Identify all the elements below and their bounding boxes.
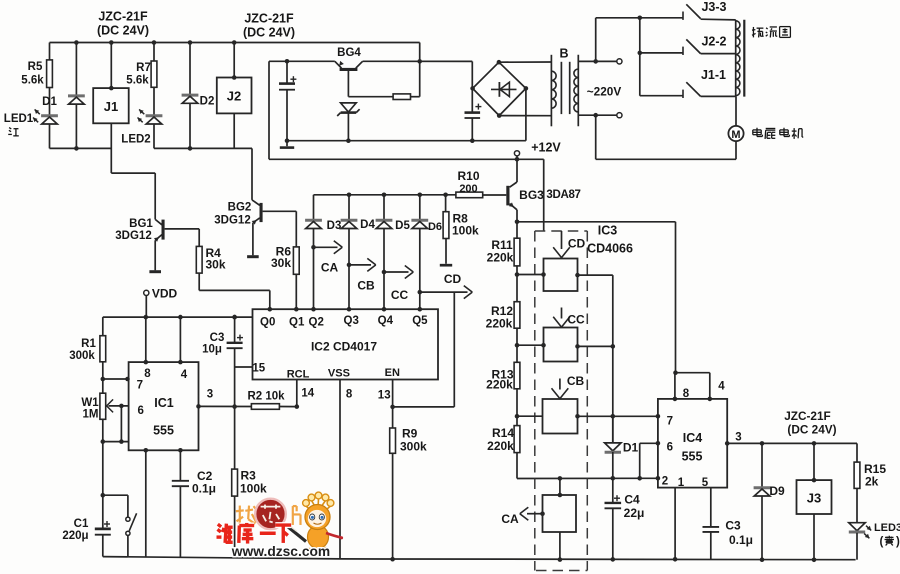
IC IC2 CD4017 <box>253 309 439 379</box>
label fan motor (dianshan dianji) <box>756 128 758 137</box>
motor M <box>735 96 737 126</box>
svg-text:CC: CC <box>567 313 585 327</box>
diode D1 timing <box>612 416 614 443</box>
svg-text:J3-3: J3-3 <box>701 0 726 14</box>
svg-text:3DA87: 3DA87 <box>546 189 580 201</box>
resistor BG4 bias <box>348 96 393 98</box>
wire pin3 output <box>727 442 857 444</box>
resistor R15 <box>856 443 858 462</box>
svg-text:CB: CB <box>357 279 375 293</box>
svg-text:220k: 220k <box>487 251 514 265</box>
svg-text:RCL: RCL <box>287 369 310 381</box>
svg-text:0.1μ: 0.1μ <box>729 533 753 547</box>
wire regulator output +12V <box>268 61 270 159</box>
svg-text:BG2: BG2 <box>228 202 252 214</box>
resistor R5 <box>49 43 51 60</box>
wire LED2 D2 J2 common to BG2 <box>154 147 252 149</box>
capacitor bridge output <box>465 111 481 114</box>
zener diode BG4 <box>341 103 357 112</box>
wire VDD bus <box>103 316 253 318</box>
svg-text:3DG12: 3DG12 <box>214 215 250 227</box>
svg-text:100k: 100k <box>452 224 479 238</box>
wire bridge left leg <box>471 61 473 112</box>
resistor R9 <box>392 407 394 428</box>
svg-text:BG1: BG1 <box>129 218 153 230</box>
svg-text:3: 3 <box>735 432 741 444</box>
svg-text:(DC 24V): (DC 24V) <box>243 26 295 40</box>
svg-text:EN: EN <box>385 367 400 379</box>
svg-text:R2 10k: R2 10k <box>247 391 285 403</box>
IC IC4 555 <box>658 399 727 488</box>
svg-text:www.dzsc.com: www.dzsc.com <box>231 544 330 559</box>
pin 8 stub <box>145 317 147 362</box>
svg-text:JZC-21F: JZC-21F <box>98 10 148 24</box>
svg-text:3DG12: 3DG12 <box>115 230 151 242</box>
svg-text:30k: 30k <box>271 256 291 270</box>
svg-text:R7: R7 <box>136 62 151 74</box>
svg-text:CA: CA <box>321 261 339 275</box>
terminal +12V <box>514 151 519 156</box>
wire diode rail <box>314 194 456 196</box>
svg-text:220k: 220k <box>486 378 513 392</box>
wire IC4 supply pins 8 4 <box>673 370 678 375</box>
svg-text:CA: CA <box>501 512 519 526</box>
wire BG4 collector to bridge <box>363 60 473 62</box>
svg-text:(: ( <box>880 536 884 548</box>
label red (hong) <box>9 128 11 129</box>
wire bridge bottom to transformer <box>499 115 551 117</box>
transistor BG4 <box>335 61 342 68</box>
svg-text:30k: 30k <box>206 258 226 272</box>
switch J2-2 <box>640 52 683 54</box>
relay coil J2 <box>232 40 237 45</box>
svg-text:C3: C3 <box>725 519 741 533</box>
pin 14 RCL <box>296 380 298 407</box>
wire CD switch right <box>578 274 613 276</box>
svg-text:LED2: LED2 <box>121 134 150 146</box>
ground BG1 emitter <box>149 270 161 273</box>
svg-text:R3: R3 <box>241 469 257 483</box>
svg-text:IC2 CD4017: IC2 CD4017 <box>311 340 377 354</box>
svg-text:BG4: BG4 <box>337 47 361 59</box>
svg-text:22μ: 22μ <box>624 506 645 520</box>
svg-text:D1: D1 <box>623 441 639 455</box>
analog switch CA <box>543 495 577 532</box>
diode D1 <box>74 40 79 45</box>
terminal 220V top <box>617 59 622 64</box>
resistor R14 <box>516 416 518 425</box>
svg-text:J2: J2 <box>227 89 241 104</box>
wire pin6 to pin2 loop <box>640 442 658 444</box>
wire secondary bottom <box>578 114 617 116</box>
svg-text:220k: 220k <box>486 317 513 331</box>
ground R8 <box>440 264 452 267</box>
svg-text:220μ: 220μ <box>62 530 88 542</box>
capacitor C3 10u <box>232 315 237 320</box>
svg-text:): ) <box>896 536 900 548</box>
pin 15 wire <box>235 366 253 368</box>
svg-text:D5: D5 <box>395 220 410 232</box>
svg-text:R1: R1 <box>81 338 96 350</box>
arrow CC out <box>384 271 409 273</box>
ground BG4 common <box>286 141 288 147</box>
svg-text:8: 8 <box>144 368 151 380</box>
wire switch feeder <box>639 18 641 96</box>
svg-text:2: 2 <box>662 476 668 488</box>
svg-text:(DC 24V): (DC 24V) <box>787 423 836 437</box>
wire secondary top <box>578 60 617 62</box>
svg-text:7: 7 <box>667 416 673 428</box>
svg-text:5: 5 <box>702 477 709 489</box>
switch J3-3 <box>682 12 684 20</box>
wire to IC4 supply <box>675 222 677 373</box>
svg-text:W1: W1 <box>81 397 99 409</box>
wire CC switch right <box>578 345 613 347</box>
svg-text:220k: 220k <box>487 439 514 453</box>
svg-text:200: 200 <box>459 183 477 195</box>
transistor BG3 <box>516 159 518 182</box>
capacitor C3 001 <box>710 488 712 527</box>
svg-text:CD: CD <box>568 237 586 251</box>
svg-text:4: 4 <box>718 381 725 393</box>
svg-text:CB: CB <box>567 374 585 388</box>
svg-text:D2: D2 <box>200 96 215 108</box>
svg-text:CD: CD <box>444 272 462 286</box>
wire CD to EN <box>453 292 455 407</box>
svg-text:7: 7 <box>137 380 143 392</box>
diode D5 <box>382 193 387 198</box>
wire control line to IC3 <box>543 159 545 230</box>
resistor R1 <box>102 317 104 336</box>
svg-text:CD4066: CD4066 <box>587 242 633 256</box>
svg-text:R14: R14 <box>492 426 514 440</box>
relay coil J3 <box>813 443 815 480</box>
svg-text:J3: J3 <box>807 491 821 506</box>
watermark mascot <box>288 492 344 555</box>
bridge rectifier <box>473 62 526 115</box>
svg-text:5.6k: 5.6k <box>21 75 44 87</box>
svg-text:Q5: Q5 <box>412 315 428 327</box>
terminal VDD <box>144 290 149 295</box>
wire bridge top to transformer <box>499 61 552 63</box>
arrow CD out <box>420 291 468 293</box>
pin 1 stub <box>674 488 676 560</box>
svg-text:3: 3 <box>207 389 213 401</box>
svg-text:D3: D3 <box>327 220 342 232</box>
diode D2 <box>188 40 193 45</box>
IC3 dashed box <box>535 231 588 571</box>
capacitor C1 <box>102 442 104 496</box>
capacitor C4 <box>612 478 614 502</box>
svg-text:6: 6 <box>137 405 143 417</box>
arrow CA in <box>527 513 543 515</box>
wire switch common vertical <box>612 275 614 443</box>
svg-text:IC1: IC1 <box>154 396 174 410</box>
wire bottom bus <box>103 557 856 560</box>
svg-text:Q0: Q0 <box>260 317 275 329</box>
resistor R7 <box>152 40 157 45</box>
wire bottom bus left segment <box>50 147 112 149</box>
LED LED3 <box>849 523 865 531</box>
resistor R3 <box>234 407 236 470</box>
svg-text:J2-2: J2-2 <box>701 35 726 49</box>
wire wiper to pin2 loop <box>120 406 122 442</box>
diode D9 <box>761 443 763 487</box>
resistor R12 <box>516 275 518 302</box>
svg-text:1M: 1M <box>83 409 99 421</box>
svg-text:VSS: VSS <box>328 368 350 380</box>
svg-text:C3: C3 <box>210 332 225 344</box>
relay coil J1 <box>109 40 114 45</box>
pin 4 stub <box>179 317 181 362</box>
watermark zhao xin pian logo <box>236 506 301 525</box>
pin 3 output wire <box>199 405 252 407</box>
svg-text:14: 14 <box>301 388 314 400</box>
transistor BG1 <box>155 219 162 224</box>
resistor R11 <box>516 222 518 238</box>
svg-text:BG3: BG3 <box>519 188 544 202</box>
pin 13 EN <box>392 380 394 407</box>
svg-text:13: 13 <box>378 390 391 402</box>
svg-text:IC3: IC3 <box>598 224 618 238</box>
pin 8 VSS <box>339 380 341 559</box>
diode D6 <box>418 193 423 198</box>
svg-text:LED3: LED3 <box>874 522 900 534</box>
svg-text:C1: C1 <box>74 518 89 530</box>
analog switch CC <box>544 328 578 362</box>
switch start <box>103 494 128 496</box>
svg-text:R9: R9 <box>402 427 418 441</box>
svg-text:M: M <box>731 129 740 141</box>
arrow CB out <box>349 264 371 266</box>
choke coil windings <box>735 20 737 97</box>
svg-text:555: 555 <box>682 450 703 464</box>
svg-text:VDD: VDD <box>152 287 178 301</box>
svg-text:JZC-21F: JZC-21F <box>244 12 294 26</box>
diode D4 <box>347 193 352 198</box>
svg-text:0.1μ: 0.1μ <box>192 482 216 496</box>
label choke (eliuquan) <box>752 27 754 37</box>
svg-text:2k: 2k <box>865 475 879 489</box>
svg-text:100k: 100k <box>240 482 267 496</box>
resistor R6 <box>263 210 297 212</box>
svg-text:B: B <box>559 47 568 61</box>
svg-text:LED1: LED1 <box>4 113 34 125</box>
svg-text:Q1: Q1 <box>289 317 305 329</box>
svg-text:D1: D1 <box>42 96 57 108</box>
svg-text:555: 555 <box>153 424 174 438</box>
svg-text:J1-1: J1-1 <box>701 68 726 82</box>
capacitor BG4 input <box>285 59 290 64</box>
terminal 220V bottom <box>617 113 622 118</box>
resistor R2 <box>251 404 279 410</box>
ground BG2 emitter <box>247 255 259 258</box>
diode D3 <box>313 195 315 220</box>
LED LED2 <box>146 114 163 117</box>
wire BG3 emitter rail <box>517 221 676 223</box>
svg-text:5.6k: 5.6k <box>126 75 149 87</box>
wire BG4 base <box>347 71 349 97</box>
wire J1 to BG1 collector <box>110 123 112 173</box>
svg-text:4: 4 <box>181 369 188 381</box>
resistor R10 <box>483 194 507 196</box>
switch J1-1 <box>640 95 683 97</box>
svg-text:Q4: Q4 <box>378 315 394 327</box>
resistor R13 <box>516 345 518 362</box>
wire CD switch left <box>517 274 544 276</box>
svg-text:D9: D9 <box>769 484 785 498</box>
wire CB switch right to pin7 <box>578 415 658 417</box>
svg-text:R5: R5 <box>28 61 43 73</box>
svg-text:JZC-21F: JZC-21F <box>784 409 831 423</box>
wire bridge right leg <box>525 88 527 140</box>
resistor R4 <box>165 228 200 230</box>
svg-text:Q2: Q2 <box>309 317 324 329</box>
svg-text:~220V: ~220V <box>587 85 622 99</box>
arrow CA out <box>314 246 338 248</box>
svg-text:300k: 300k <box>69 350 95 362</box>
wire CB switch left <box>517 415 543 417</box>
svg-text:D4: D4 <box>360 219 375 231</box>
svg-text:10μ: 10μ <box>202 344 222 356</box>
potentiometer W1 <box>102 379 104 393</box>
analog switch CB <box>543 399 578 434</box>
svg-text:C4: C4 <box>624 493 640 507</box>
wire motor return <box>595 115 597 159</box>
svg-text:8: 8 <box>346 389 353 401</box>
svg-text:15: 15 <box>252 363 265 375</box>
analog switch CD <box>544 259 578 292</box>
svg-text:+12V: +12V <box>531 141 561 155</box>
wire 24V top bus <box>50 42 420 44</box>
wire BG4 emitter rail <box>269 60 335 62</box>
svg-text:300k: 300k <box>400 440 427 454</box>
wire top bus corner to BG4 node <box>419 43 421 97</box>
transistor BG2 <box>252 200 260 205</box>
resistor R8 <box>443 193 448 198</box>
wire R1 to pin7 <box>103 378 129 380</box>
svg-text:D6: D6 <box>428 221 442 233</box>
wire CC switch left <box>517 344 544 346</box>
svg-text:CC: CC <box>391 288 409 302</box>
wiper W1 to pin6 <box>109 405 129 407</box>
watermark weiku red text <box>217 523 292 544</box>
IC IC1 555 <box>129 362 199 450</box>
pin 1 stub to bus <box>145 450 147 557</box>
svg-text:6: 6 <box>667 442 673 454</box>
svg-text:J1: J1 <box>104 99 118 114</box>
svg-text:Q3: Q3 <box>344 315 359 327</box>
wire R14 to pin2 line <box>517 477 658 479</box>
svg-text:IC4: IC4 <box>683 431 703 445</box>
svg-text:1: 1 <box>678 477 685 489</box>
wire BG4 common rail <box>287 140 526 142</box>
svg-text:(DC 24V): (DC 24V) <box>97 24 149 38</box>
wire secondary top to switches <box>595 18 597 62</box>
LED LED1 <box>41 114 58 117</box>
svg-text:R10: R10 <box>457 169 479 183</box>
wire R4 to Q0 <box>199 289 270 291</box>
capacitor C2 <box>179 450 181 480</box>
